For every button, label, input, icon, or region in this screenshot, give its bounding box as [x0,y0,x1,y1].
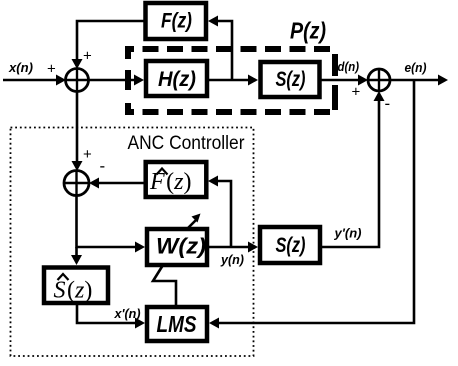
svg-text:+: + [83,146,92,163]
svg-text:x'(n): x'(n) [114,306,141,321]
svg-text:+: + [352,84,361,101]
adaptive arrow on W(z) [188,220,196,228]
wire summer 1 down to summer 3 [76,92,79,164]
wire F(z) input from node on H(z) output [215,21,232,80]
wire continue down into S^(z) [75,247,78,257]
block W(z) adaptive filter [147,229,207,265]
wire F^(z) output into summer 3 [96,182,145,185]
wire LMS update zigzag to W(z) [153,265,176,305]
svg-text:-: - [385,94,391,113]
wire S^(z) output x'(n) into LMS [77,304,138,323]
summing junction 1 [66,69,89,92]
wire summer 3 down, branch right into W(z) [77,196,139,248]
svg-text:S(z): S(z) [276,68,306,91]
svg-text:x(n): x(n) [8,60,33,75]
wire error feedback e(n) down and left into LMS [216,80,414,323]
wire F^(z) input from y(n) node [215,181,231,247]
svg-text:e(n): e(n) [405,60,427,75]
svg-text:ANC Controller: ANC Controller [128,132,245,154]
block F(z) [146,3,207,39]
wire summer 1 to H(z) [89,79,138,82]
svg-text:W(z): W(z) [156,234,206,259]
wire S(z) to summer 2 [320,79,361,82]
wire H(z) to S(z) [207,79,251,82]
svg-text:+: + [47,61,56,78]
wire x(n) input into summer 1 [3,79,58,82]
svg-text:d(n): d(n) [338,59,360,74]
svg-text:S(z): S(z) [276,234,306,257]
svg-text:-: - [100,157,106,176]
block S^(z) estimated secondary path [44,268,108,304]
summing junction 2 [368,69,390,91]
wire W(z) output y(n) to S(z) bottom [207,246,251,249]
svg-text:y'(n): y'(n) [333,226,361,241]
svg-text:+: + [83,48,92,65]
wire summer 2 to e(n) output [390,79,441,82]
block S(z) bottom (secondary path) [260,227,320,263]
svg-text:y(n): y(n) [220,252,244,267]
summing junction 3 [64,171,89,196]
block F^(z) estimated feedback path [146,162,207,197]
block S(z) top (secondary path in plant) [261,62,320,97]
wire F(z) output down into summer 1 [77,21,145,61]
dashed box P(z) plant boundary [125,46,338,115]
svg-text:LMS: LMS [157,311,198,337]
svg-text:F(z): F(z) [161,10,192,33]
svg-text:F(z): F(z) [149,169,192,195]
svg-text:H(z): H(z) [158,68,196,91]
svg-text:S(z): S(z) [54,278,93,304]
dotted box ANC Controller boundary [11,128,254,357]
svg-text:P(z): P(z) [290,18,326,44]
block LMS [147,307,207,341]
wire S(z) bottom output up into summer 2 [320,98,379,247]
block H(z) [146,61,207,96]
